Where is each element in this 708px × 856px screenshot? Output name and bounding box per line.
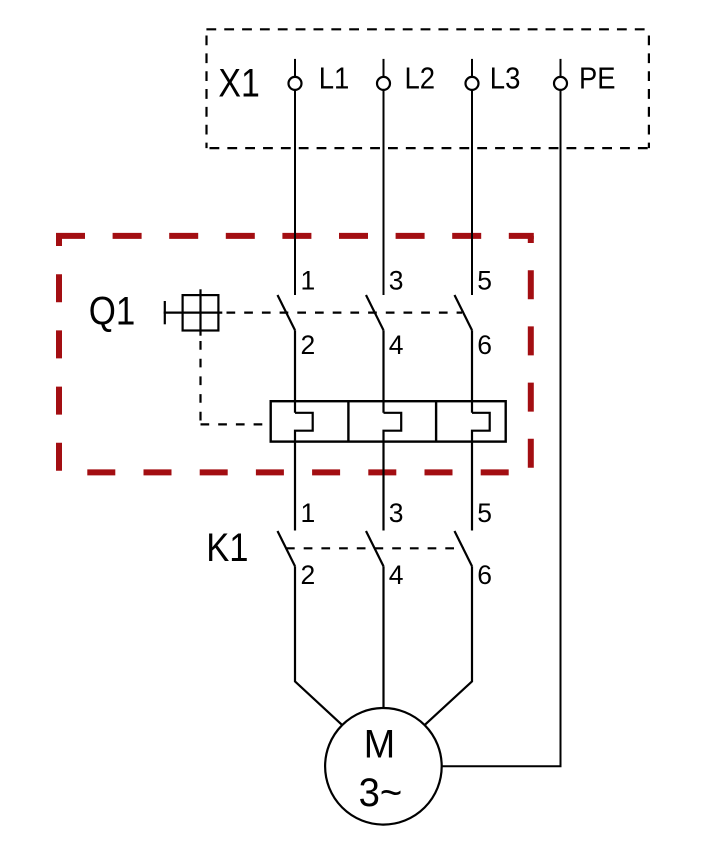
thermal block divider 2	[435, 401, 437, 441]
X1 box: left edge	[205, 29, 207, 148]
svg-text:Q1: Q1	[89, 289, 136, 333]
svg-text:PE: PE	[579, 62, 616, 96]
X1 box: bottom edge	[207, 147, 649, 149]
svg-text:5: 5	[477, 498, 492, 528]
wire Q1 pole2 blade to thermal element	[382, 330, 384, 413]
svg-text:1: 1	[301, 498, 316, 528]
wire K1 pole1 to motor	[295, 566, 342, 725]
terminal L2 circle	[377, 77, 390, 90]
svg-text:4: 4	[389, 330, 404, 360]
Q1 mechanical linkage dashed horizontal to poles	[227, 312, 463, 314]
Q1 actuator vertical stem	[199, 289, 201, 335]
terminal strip X1 dashed box: top edge	[206, 28, 649, 30]
Q1 pole 1 contact blade	[278, 295, 296, 330]
terminal L1 stub	[294, 59, 296, 77]
terminal L3 stub	[471, 59, 473, 77]
svg-text:3~: 3~	[359, 771, 403, 815]
terminal L3 circle	[466, 77, 479, 90]
svg-text:3: 3	[389, 265, 404, 295]
Q1 red dashed box: left edge	[56, 236, 62, 473]
K1 pole 2 contact blade	[366, 531, 384, 566]
terminal PE stub	[560, 59, 562, 77]
svg-text:2: 2	[301, 560, 316, 590]
svg-text:1: 1	[301, 265, 316, 295]
thermal block divider 1	[347, 401, 349, 441]
svg-text:5: 5	[477, 265, 492, 295]
svg-text:L1: L1	[319, 62, 350, 96]
thermal element pole 3	[472, 413, 490, 531]
svg-text:4: 4	[389, 560, 404, 590]
K1 linkage dashed line	[286, 547, 464, 549]
terminal L2 stub	[383, 59, 385, 77]
svg-text:M: M	[364, 723, 395, 767]
wire Q1 pole1 blade to thermal element	[294, 330, 296, 413]
Q1 actuator square	[183, 295, 219, 330]
wire PE down right side to motor	[442, 90, 561, 766]
wire K1 pole2 to motor	[382, 566, 384, 709]
svg-text:L2: L2	[405, 62, 436, 96]
terminal L1 circle	[289, 77, 302, 90]
Q1 pole 2 contact blade	[366, 295, 384, 330]
motor protective breaker Q1 red dashed box: top edge	[56, 233, 534, 239]
wire L1 from terminal to Q1 pole 1	[294, 90, 296, 295]
svg-text:L3: L3	[490, 62, 521, 96]
svg-text:2: 2	[301, 330, 316, 360]
Q1 linkage dashed vertical to thermal trip	[199, 341, 201, 424]
Q1 manual actuator handle T-bar	[164, 301, 166, 324]
svg-text:3: 3	[389, 498, 404, 528]
Q1 pole 3 contact blade	[455, 295, 473, 330]
wire Q1 pole3 blade to thermal element	[471, 330, 473, 413]
Q1 red dashed box: right edge	[528, 236, 534, 473]
motor M1 circle	[325, 708, 442, 825]
svg-text:X1: X1	[218, 62, 259, 106]
thermal element pole 1	[295, 413, 313, 531]
Q1 linkage dashed horizontal to thermal block	[201, 423, 271, 425]
svg-text:6: 6	[477, 560, 492, 590]
X1 box: right edge	[648, 29, 650, 148]
wire K1 pole3 to motor	[425, 566, 472, 725]
Q1 thermal overload block outline	[271, 401, 506, 441]
Q1 red dashed box: bottom edge	[59, 469, 534, 475]
Q1 actuator horizontal stem	[164, 312, 223, 314]
thermal element pole 2	[384, 413, 402, 531]
wire L2 from terminal to Q1 pole 3	[383, 90, 385, 295]
svg-text:K1: K1	[206, 526, 248, 570]
K1 pole 1 contact blade	[278, 531, 296, 566]
wire L3 from terminal to Q1 pole 5	[471, 90, 473, 295]
svg-text:6: 6	[477, 330, 492, 360]
terminal PE circle	[554, 77, 567, 90]
K1 pole 3 contact blade	[455, 531, 473, 566]
